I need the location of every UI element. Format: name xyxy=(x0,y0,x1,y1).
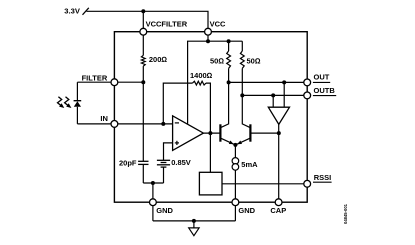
junction rail/50R left xyxy=(227,39,231,43)
wire photodiode to IN pin xyxy=(77,123,111,125)
wire buffer output to CAP xyxy=(278,124,280,198)
junction emitters xyxy=(233,143,237,147)
pin OUT xyxy=(304,79,311,86)
junction 50R-right/OUTB xyxy=(240,93,244,97)
svg-text:04845-001: 04845-001 xyxy=(343,203,348,224)
resistor 1400R xyxy=(193,81,207,85)
wire OUT line xyxy=(229,81,304,83)
wire 200R junction down to 20pF xyxy=(142,82,144,161)
svg-text:FILTER: FILTER xyxy=(82,74,108,83)
current source 5mA xyxy=(232,158,239,171)
junction OUT/buffer input xyxy=(282,80,286,84)
transistor Q2 xyxy=(249,124,251,141)
wire collector Q2 xyxy=(242,95,250,127)
wire collector Q1 xyxy=(221,82,229,127)
svg-text:GND: GND xyxy=(238,206,255,215)
svg-text:RSSI: RSSI xyxy=(314,173,332,182)
svg-text:3.3V: 3.3V xyxy=(64,7,81,16)
junction op-amp output node xyxy=(208,131,212,135)
buffer amp U2 xyxy=(268,107,289,124)
wire emitters to current source xyxy=(234,145,236,158)
svg-text:VCC: VCC xyxy=(210,20,226,29)
light arrow 1 xyxy=(58,97,65,108)
pin OUTB xyxy=(304,92,311,99)
IC block outline xyxy=(114,32,307,203)
wire external ground bus xyxy=(153,220,236,222)
transistor Q1 xyxy=(219,124,221,141)
wire VCC rail xyxy=(188,41,243,124)
junction VCC/rail xyxy=(206,39,210,43)
wire current source to GND pin xyxy=(234,170,236,199)
photodiode D1 xyxy=(74,82,82,124)
emitter Q2 xyxy=(235,138,249,145)
svg-text:GND: GND xyxy=(156,206,173,215)
svg-text:OUT: OUT xyxy=(314,73,330,82)
svg-text:VCCFILTER: VCCFILTER xyxy=(146,20,188,29)
svg-text:CAP: CAP xyxy=(270,206,286,215)
wire buffer input from OUT xyxy=(283,82,285,107)
junction feedback / minus input xyxy=(161,122,165,126)
junction buffer/Q2 base xyxy=(277,131,281,135)
wire buffer input from OUTB xyxy=(272,95,274,107)
wire offset block to RSSI xyxy=(222,183,304,185)
wire op-amp plus input xyxy=(164,143,173,160)
op-amp A1 xyxy=(173,116,204,151)
pin VCC xyxy=(205,28,212,35)
resistor 50R left xyxy=(227,41,231,82)
light arrow 2 xyxy=(65,97,72,108)
wire 3.3V rail to VCC xyxy=(87,11,209,28)
emitter Q1 xyxy=(221,138,235,145)
wire output node to Q1 base xyxy=(203,132,219,134)
wire VCC stub to rail xyxy=(207,35,209,41)
svg-text:50Ω: 50Ω xyxy=(210,56,224,65)
junction FILTER/200R xyxy=(141,80,145,84)
junction 3.3V/VCCFILTER xyxy=(141,9,145,13)
wire feedback riser xyxy=(163,83,192,124)
junction 50R-left/OUT xyxy=(227,80,231,84)
svg-text:IN: IN xyxy=(100,114,108,123)
junction ground bus xyxy=(192,219,196,223)
svg-text:200Ω: 200Ω xyxy=(149,55,168,64)
svg-text:1400Ω: 1400Ω xyxy=(190,71,213,80)
resistor 200R xyxy=(141,35,145,82)
wire GND right stub xyxy=(234,206,236,221)
pin RSSI xyxy=(304,180,311,187)
svg-text:50Ω: 50Ω xyxy=(247,56,261,65)
wire FILTER to 200R junction xyxy=(118,81,144,83)
wire GND left stub xyxy=(152,206,154,221)
wire OUTB line xyxy=(242,94,303,96)
wire output node to offset block xyxy=(209,133,211,172)
pin CAP xyxy=(275,199,282,206)
wire FILTER pin to photodiode xyxy=(77,81,111,83)
svg-text:5mA: 5mA xyxy=(241,160,258,169)
pin FILTER xyxy=(111,79,118,86)
svg-text:20pF: 20pF xyxy=(119,158,137,167)
junction OUTB/buffer input xyxy=(271,93,275,97)
wire cap/battery bottoms to GND pin xyxy=(143,182,163,184)
pin IN xyxy=(111,121,118,128)
wire ground stub xyxy=(193,221,195,228)
capacitor 20pF xyxy=(138,161,148,164)
wire 1400R to output node xyxy=(206,83,210,133)
wire VCCFILTER drop xyxy=(142,11,144,28)
pin GND right xyxy=(232,199,239,206)
pin GND left xyxy=(150,199,157,206)
wire Q2 base to buffer output xyxy=(251,132,279,134)
ground symbol xyxy=(189,228,199,236)
svg-text:OUTB: OUTB xyxy=(314,86,336,95)
wire IN to op-amp minus input xyxy=(118,123,173,125)
supply rail slash xyxy=(83,8,89,15)
pin VCCFILTER xyxy=(140,28,147,35)
resistor 50R right xyxy=(240,41,244,95)
battery 0.85V xyxy=(157,160,170,167)
svg-text:0.85V: 0.85V xyxy=(171,158,191,167)
offset block U3 xyxy=(199,172,222,195)
